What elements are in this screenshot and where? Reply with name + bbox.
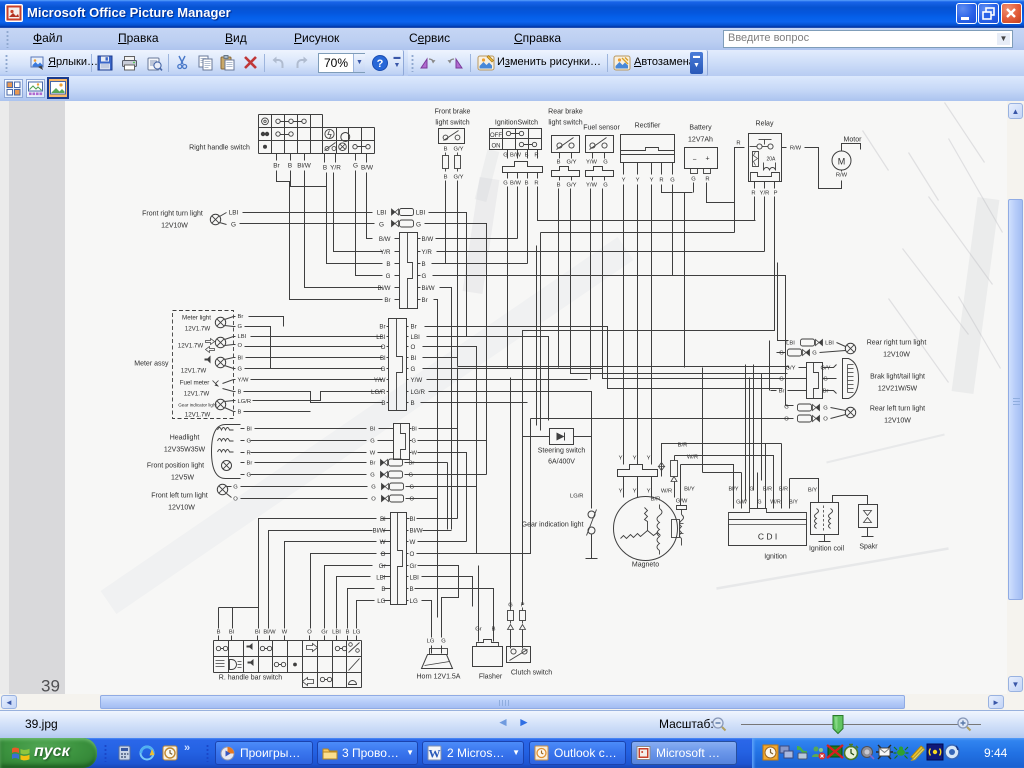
- wire meter B1: [234, 391, 236, 393]
- magneto windings: [621, 505, 663, 555]
- wire conn4 B bus: [415, 589, 494, 642]
- wire B conn2 right: [421, 402, 528, 404]
- svg-text:LG: LG: [377, 598, 385, 605]
- wire G run: [240, 223, 375, 225]
- svg-text:Headlight: Headlight: [170, 435, 200, 442]
- svg-text:Flasher: Flasher: [479, 674, 503, 681]
- svg-text:LBI: LBI: [229, 210, 239, 217]
- svg-text:G: G: [370, 439, 375, 445]
- wire gear ground: [591, 535, 593, 559]
- svg-text:O: O: [381, 551, 386, 558]
- rear brake stubs 2: [560, 177, 572, 181]
- svg-text:G: G: [823, 377, 828, 383]
- wire Br conn2 right: [425, 327, 783, 389]
- wire rbrake B down: [558, 189, 560, 368]
- wire Y/R conn1 stub left: [395, 251, 400, 253]
- wire conn4 Gr right: [407, 565, 409, 567]
- wire stub Bl hb: [257, 636, 259, 641]
- wire hb Bl drop: [232, 608, 234, 629]
- wire Bl conn2 right: [423, 357, 458, 359]
- wire meter G2: [234, 368, 236, 370]
- ignition conn stubs: [508, 173, 538, 179]
- svg-text:O: O: [307, 630, 312, 636]
- wire meter G1 2: [245, 327, 271, 369]
- wire G rearleft lamp: [831, 408, 846, 411]
- svg-text:Meter light: Meter light: [182, 315, 211, 322]
- lamp high beam indicator: [215, 357, 225, 367]
- wire LBI to bus: [429, 213, 467, 337]
- wire Y/W conn2 lstub: [387, 379, 389, 381]
- wire BW down: [367, 173, 373, 239]
- wire motor bottom: [841, 171, 843, 172]
- faint streak bottom right: [717, 549, 949, 589]
- svg-text:O: O: [411, 344, 416, 351]
- svg-text:G/Y: G/Y: [786, 366, 796, 372]
- relay pin stubs: [755, 182, 775, 189]
- svg-text:12V21W/5W: 12V21W/5W: [878, 386, 918, 393]
- wire G conn2 rstub: [407, 368, 409, 370]
- wire Br conn1 stub left: [395, 299, 400, 301]
- svg-text:Bl: Bl: [410, 516, 416, 523]
- svg-text:Right handle switch: Right handle switch: [189, 145, 250, 152]
- wire aux h232: [541, 232, 735, 234]
- svg-text:R. handle bar switch: R. handle bar switch: [219, 675, 283, 682]
- lamp front position: [222, 461, 232, 471]
- wire rect Y2 down: [637, 185, 639, 465]
- wire relay RW out: [782, 147, 787, 149]
- wire BiW right run: [440, 288, 452, 530]
- wire O conn2 rstub: [407, 346, 409, 348]
- svg-text:B/W: B/W: [510, 153, 521, 159]
- r handle bar switch symbols: [216, 643, 360, 686]
- svg-text:Br: Br: [422, 297, 428, 304]
- wire B down: [327, 187, 383, 264]
- wire B stub f: [324, 154, 326, 163]
- svg-text:P: P: [774, 191, 778, 197]
- svg-text:LBI: LBI: [411, 334, 421, 341]
- svg-text:Br: Br: [823, 389, 829, 395]
- svg-text:Bi/W: Bi/W: [422, 285, 435, 292]
- wire G conn2 lstub: [387, 368, 389, 370]
- svg-text:O: O: [784, 417, 789, 423]
- svg-text:12V5W: 12V5W: [171, 475, 194, 482]
- svg-text:G: G: [381, 366, 386, 373]
- watermark smudge near ignition: [481, 151, 494, 201]
- svg-text:W: W: [380, 539, 386, 546]
- wire lamp G stub: [220, 223, 227, 225]
- svg-text:B: B: [411, 400, 415, 407]
- svg-text:Fuel sensor: Fuel sensor: [583, 125, 620, 132]
- svg-text:Front brake: Front brake: [435, 109, 471, 116]
- ignition coil box: [811, 503, 839, 535]
- svg-text:B: B: [323, 165, 327, 172]
- svg-text:LG/R: LG/R: [411, 389, 426, 396]
- speaker icon meter: [205, 356, 211, 364]
- headlight filaments: [218, 428, 234, 453]
- wire bus v3 rear: [761, 374, 763, 481]
- wire clutch G 2: [510, 630, 512, 649]
- wire batt G ext: [684, 193, 686, 368]
- svg-text:G: G: [812, 351, 817, 357]
- svg-text:G: G: [823, 406, 828, 412]
- svg-text:R/W: R/W: [790, 146, 802, 152]
- horn symbol: [422, 649, 453, 669]
- wire meter B1 2: [244, 392, 383, 403]
- wire fuel G down: [603, 189, 807, 379]
- switch table symbols: [261, 118, 370, 151]
- wire conn4 LBI stub: [383, 576, 391, 578]
- rectifier pin stubs: [624, 163, 673, 175]
- wire ign R down: [538, 187, 756, 221]
- wire conn4 Bl left: [259, 519, 377, 629]
- lamp rear left turn: [845, 407, 855, 417]
- wire steering in: [523, 436, 550, 438]
- svg-text:LG/R: LG/R: [570, 494, 584, 500]
- svg-text:12V10W: 12V10W: [161, 223, 188, 230]
- svg-text:Spakr: Spakr: [859, 544, 878, 551]
- svg-text:W: W: [282, 630, 288, 636]
- svg-text:Y/R: Y/R: [380, 249, 391, 256]
- wire meter LBI 2: [251, 336, 383, 338]
- svg-text:Y: Y: [622, 178, 626, 184]
- wire flt O stub: [227, 494, 232, 498]
- wire relay R down: [754, 197, 756, 221]
- cdi box: [729, 520, 807, 546]
- wire LBI rear feed: [778, 263, 789, 341]
- wire B conn2 rstub: [407, 402, 409, 404]
- svg-text:LBI: LBI: [376, 334, 386, 341]
- wire B conn1 stub left: [395, 263, 400, 265]
- connector pill B fbrake: [443, 153, 449, 172]
- svg-text:Bl/W: Bl/W: [297, 163, 311, 170]
- svg-text:G: G: [441, 639, 446, 645]
- wire LBI lamp: [837, 343, 846, 347]
- svg-text:Y/R: Y/R: [422, 249, 433, 256]
- svg-text:B: B: [422, 261, 426, 268]
- wire fbrake GY down: [457, 181, 459, 367]
- watermark vertical smudge: [473, 179, 490, 293]
- wire hl Bl stub: [379, 428, 394, 430]
- connector pair G rearleft: [798, 404, 820, 411]
- svg-text:G: G: [779, 351, 784, 357]
- right edge smudge: [963, 199, 989, 393]
- magneto circle: [614, 497, 678, 561]
- wire conn4 LBI bus: [422, 577, 473, 607]
- svg-text:R: R: [247, 451, 251, 457]
- connector rear brake: [552, 167, 580, 177]
- wire conn4 BlW bus: [423, 530, 452, 532]
- svg-text:LBI: LBI: [376, 575, 386, 582]
- connector pair O flt: [382, 495, 404, 502]
- svg-text:G/Y: G/Y: [454, 175, 464, 181]
- fuel meter needle icon: [213, 381, 219, 387]
- right handle switch connector table: [259, 115, 375, 154]
- wire headlight R run: [251, 452, 367, 454]
- connector fuel sensor: [586, 167, 614, 177]
- svg-text:G/W: G/W: [676, 499, 688, 505]
- wire pos G: [241, 474, 245, 476]
- svg-text:Rectifier: Rectifier: [635, 123, 661, 130]
- svg-text:B: B: [217, 630, 221, 636]
- turn indicator icon: [206, 339, 215, 353]
- wire B bracket: [291, 171, 327, 187]
- wire conn4 BlW stub: [383, 530, 391, 532]
- wire coil to spark: [833, 496, 868, 505]
- wire pos Br: [241, 462, 245, 464]
- wire conn4 W left: [285, 542, 377, 629]
- wire O rearleft: [531, 418, 794, 420]
- wire stub Bl/W hb: [269, 636, 271, 641]
- connector pair LBI rear: [801, 339, 823, 346]
- svg-text:B/R: B/R: [763, 487, 772, 493]
- fuel sensor stubs 2: [593, 177, 605, 181]
- svg-text:G/Y: G/Y: [567, 183, 577, 189]
- wire bus v2 rear: [753, 365, 755, 491]
- svg-text:Br: Br: [411, 324, 417, 331]
- wire motor top: [842, 144, 861, 151]
- svg-text:Bl: Bl: [380, 516, 386, 523]
- svg-text:Gr: Gr: [321, 630, 328, 636]
- wire G tail r: [823, 378, 837, 380]
- connector tail light: [807, 363, 823, 399]
- svg-text:B: B: [386, 261, 390, 268]
- svg-text:Clutch switch: Clutch switch: [511, 670, 552, 677]
- svg-text:Bl/W: Bl/W: [410, 528, 423, 535]
- wire B conn2 lstub: [387, 402, 389, 404]
- wire bus x466 lower: [466, 453, 468, 542]
- svg-text:ON: ON: [492, 144, 501, 150]
- wire B/W conn1 stub left: [395, 238, 400, 240]
- wire stub W hb: [284, 636, 286, 641]
- rear brake stubs: [560, 153, 572, 159]
- svg-text:LG: LG: [353, 630, 361, 636]
- svg-text:O: O: [371, 497, 376, 503]
- fuse WR: [671, 456, 678, 487]
- wire O conn2 lstub: [387, 346, 389, 348]
- svg-text:Horn 12V1.5A: Horn 12V1.5A: [417, 674, 461, 681]
- wire conn4 O right: [407, 553, 409, 555]
- svg-text:Gr: Gr: [410, 563, 417, 570]
- svg-text:Bl: Bl: [238, 356, 243, 362]
- svg-text:12V35W35W: 12V35W35W: [164, 447, 206, 454]
- wire flt O bus: [406, 498, 438, 500]
- wire hl Bl right: [410, 428, 412, 430]
- wire Br right run: [434, 300, 438, 618]
- svg-text:12V10W: 12V10W: [883, 352, 910, 359]
- wire Y/W conn2 rstub: [407, 379, 409, 381]
- wire ign BW down: [517, 187, 519, 239]
- connector pill GY fbrake: [455, 153, 461, 172]
- svg-text:12V1.7W: 12V1.7W: [181, 368, 207, 375]
- wire meter O 2: [245, 346, 383, 348]
- svg-text:B: B: [492, 627, 496, 633]
- rear feed bracket: [786, 353, 794, 406]
- svg-text:G: G: [603, 160, 608, 166]
- lamp gear indicator: [215, 399, 225, 409]
- wire G rear lamp: [820, 351, 846, 353]
- svg-text:B/R: B/R: [779, 487, 788, 493]
- tail light housing: [843, 359, 859, 399]
- svg-text:Front position light: Front position light: [147, 463, 204, 470]
- wire meter LBI: [234, 336, 236, 338]
- svg-text:LBI: LBI: [416, 210, 426, 217]
- wire LGR conn2 right: [429, 392, 592, 509]
- wire LG/R conn2 lstub: [387, 391, 389, 393]
- wire conn4 BlW right: [407, 530, 409, 532]
- wire B conn1 stub right: [418, 263, 421, 265]
- svg-text:B/R: B/R: [651, 497, 661, 503]
- wire meter YW 2: [251, 379, 383, 381]
- svg-text:Br: Br: [409, 461, 415, 467]
- svg-text:O: O: [238, 343, 243, 349]
- svg-text:B: B: [238, 390, 242, 396]
- motor circle: [832, 151, 851, 170]
- wire stub fuel a: [223, 380, 234, 384]
- wire stub B hb: [218, 636, 220, 641]
- svg-text:Br: Br: [247, 461, 253, 467]
- svg-text:R/W: R/W: [836, 173, 848, 179]
- svg-text:Bi/W: Bi/W: [377, 285, 390, 292]
- wire G down: [356, 171, 383, 276]
- wire bus x447: [447, 463, 449, 530]
- svg-text:B: B: [444, 147, 448, 153]
- svg-text:Gr: Gr: [379, 563, 386, 570]
- wire hl W bus: [418, 453, 467, 542]
- svg-text:G: G: [247, 439, 252, 445]
- svg-text:LBI: LBI: [332, 630, 341, 636]
- wire batt R down: [707, 148, 745, 203]
- wire stub lamp2b: [225, 345, 234, 346]
- wire G right run: [433, 275, 673, 277]
- svg-text:O: O: [823, 417, 828, 423]
- connector handlebar harness: [391, 513, 407, 605]
- svg-text:B: B: [525, 181, 529, 187]
- wire O conn2 right: [423, 347, 477, 554]
- wire BlY clamp: [681, 465, 734, 506]
- wire stub lamp5a: [225, 401, 234, 402]
- svg-text:G: G: [379, 222, 384, 229]
- svg-text:Y: Y: [647, 489, 651, 495]
- lamp front left turn: [217, 484, 227, 494]
- svg-text:Gear indicator light: Gear indicator light: [178, 403, 217, 408]
- svg-text:W: W: [429, 747, 441, 761]
- connector meter harness: [389, 319, 407, 411]
- wire hl W right: [410, 452, 412, 454]
- svg-text:W/R: W/R: [770, 500, 781, 506]
- wire meter LGR 2: [253, 392, 383, 401]
- magneto top stubs: [624, 477, 652, 498]
- svg-text:Y/R: Y/R: [760, 191, 770, 197]
- svg-text:Rear left turn light: Rear left turn light: [870, 406, 925, 413]
- svg-text:Gr: Gr: [475, 627, 482, 633]
- svg-text:G: G: [386, 273, 391, 280]
- wire ign B down: [527, 187, 529, 264]
- wire fuel YW down: [590, 189, 592, 380]
- wire conn4 O stub: [381, 553, 391, 555]
- wire hl G right: [410, 440, 412, 442]
- connector pair G pos: [381, 471, 403, 478]
- wire B handle: [290, 154, 292, 161]
- svg-text:Bl: Bl: [370, 427, 375, 433]
- connector pill P clutch: [520, 608, 526, 624]
- wire BY to coil: [790, 479, 819, 503]
- svg-text:W: W: [412, 451, 418, 457]
- wire BlW handle: [304, 154, 306, 161]
- svg-text:Br: Br: [273, 163, 280, 170]
- wire Bl conn2 rstub: [407, 357, 409, 359]
- wire B/W conn1 stub right: [418, 238, 421, 240]
- wire conn4 O bus: [417, 419, 531, 554]
- wire lamp LBI stub: [220, 213, 227, 217]
- wire YR right run: [437, 251, 765, 253]
- wire GY join: [458, 366, 783, 368]
- wire BW right run: [436, 238, 518, 240]
- battery box: [685, 148, 718, 169]
- wire Bi/W conn1 stub right: [418, 287, 421, 289]
- svg-text:Y: Y: [647, 456, 651, 462]
- svg-text:B: B: [288, 163, 292, 170]
- wire BW handle: [366, 154, 368, 163]
- svg-text:B/R: B/R: [678, 443, 688, 449]
- wire meter G2 2: [245, 368, 383, 370]
- svg-text:Bl: Bl: [229, 630, 234, 636]
- svg-text:Br: Br: [370, 461, 376, 467]
- wire G handle: [355, 154, 357, 161]
- magneto side clamp: [677, 506, 687, 515]
- wire Bl conn2 lstub: [387, 357, 389, 359]
- svg-text:Ignition: Ignition: [764, 554, 787, 561]
- clutch pill triangles: [508, 625, 526, 630]
- svg-text:B/W: B/W: [422, 236, 434, 243]
- wire GY tail r: [823, 365, 837, 368]
- svg-text:B: B: [381, 400, 385, 407]
- svg-text:R: R: [705, 177, 709, 183]
- wire Br conn1 stub right: [418, 299, 421, 301]
- svg-text:Rear brake: Rear brake: [548, 109, 583, 116]
- svg-text:LBI: LBI: [410, 575, 420, 582]
- wire rect R down: [662, 185, 693, 193]
- wire flt G bus: [406, 486, 477, 488]
- cdi pin wires: [734, 378, 790, 509]
- wire GW link v: [702, 368, 704, 473]
- wire GW link: [703, 472, 742, 474]
- svg-text:G: G: [422, 273, 427, 280]
- wire Br handle 2: [277, 171, 290, 295]
- magneto side coil: [680, 515, 684, 546]
- wire hl G bus: [418, 440, 487, 442]
- svg-text:G: G: [231, 222, 236, 229]
- svg-text:G: G: [779, 377, 784, 383]
- wire conn4 B right: [407, 588, 409, 590]
- wire fbrake B down: [445, 181, 447, 264]
- svg-text:Y/W: Y/W: [374, 377, 386, 384]
- wire clutch G down: [510, 378, 512, 609]
- svg-text:C D I: C D I: [758, 532, 777, 542]
- svg-text:LBI: LBI: [238, 334, 247, 340]
- wire meter O: [234, 344, 236, 346]
- svg-text:O: O: [381, 344, 386, 351]
- wire bus v1 rear: [745, 365, 747, 501]
- wire headlight R: [241, 452, 245, 454]
- clutch switch box: [507, 647, 531, 663]
- svg-text:Battery: Battery: [689, 125, 712, 132]
- svg-text:12V10W: 12V10W: [168, 505, 195, 512]
- wire steering out: [574, 437, 592, 509]
- svg-text:G: G: [238, 324, 243, 330]
- svg-text:12V1.7W: 12V1.7W: [185, 326, 211, 333]
- spark plug ground: [862, 528, 874, 537]
- svg-text:G: G: [409, 473, 414, 479]
